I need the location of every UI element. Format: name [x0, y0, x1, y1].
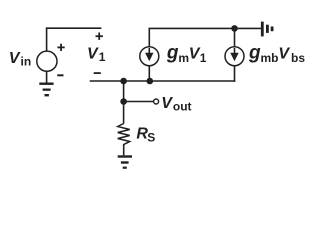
terminal circle Vout	[154, 99, 159, 104]
wire gmV1 bottom lead	[148, 66, 150, 81]
wire Vout horizontal stub	[124, 101, 154, 103]
svg-text:V: V	[278, 46, 290, 63]
junction node dot at Vout tap	[120, 98, 127, 105]
ac ground sideways at top right	[261, 22, 264, 37]
ground under Vin	[39, 83, 53, 85]
svg-text:out: out	[173, 100, 192, 114]
svg-text:V: V	[87, 46, 99, 63]
wire middle source-node horizontal	[90, 80, 236, 82]
minus sign of V1	[94, 72, 101, 74]
current source U1 gmV1 circle	[140, 47, 159, 66]
arrow of current source gmbVbs	[234, 48, 236, 54]
plus sign of V1	[96, 35, 103, 37]
svg-text:g: g	[248, 43, 261, 64]
junction node dot at source node / Vout column	[120, 78, 127, 85]
svg-text:1: 1	[99, 50, 106, 64]
svg-text:V: V	[9, 50, 21, 67]
plus sign at Vin source	[57, 47, 64, 49]
svg-text:in: in	[21, 55, 32, 69]
minus sign at Vin source	[57, 74, 63, 76]
svg-text:bs: bs	[291, 51, 305, 65]
arrow of current source gmV1	[149, 48, 151, 54]
ground under RS	[118, 155, 132, 157]
svg-text:g: g	[166, 43, 179, 64]
current source U2 gmbVbs circle	[225, 47, 244, 66]
voltage source Vin	[37, 51, 57, 71]
wire gmbVbs bottom lead	[234, 66, 236, 82]
svg-text:1: 1	[200, 51, 207, 65]
svg-text:mb: mb	[261, 51, 279, 65]
wire RS bottom lead	[123, 144, 125, 155]
svg-text:S: S	[147, 131, 155, 145]
resistor RS zigzag	[118, 124, 130, 145]
svg-text:V: V	[161, 95, 173, 112]
wire Vin top lead	[46, 28, 48, 50]
wire gmbVbs top lead	[234, 28, 236, 46]
junction node dot under gmV1	[147, 78, 154, 85]
wire top-left horizontal to gate node	[46, 27, 102, 29]
wire Vin bottom lead	[46, 72, 48, 83]
wire gmV1 top lead	[148, 28, 150, 46]
wire top rail to ac ground	[149, 27, 261, 29]
svg-text:m: m	[178, 51, 189, 65]
junction node dot on top rail	[231, 25, 238, 32]
wire Vout vertical branch	[123, 81, 125, 124]
